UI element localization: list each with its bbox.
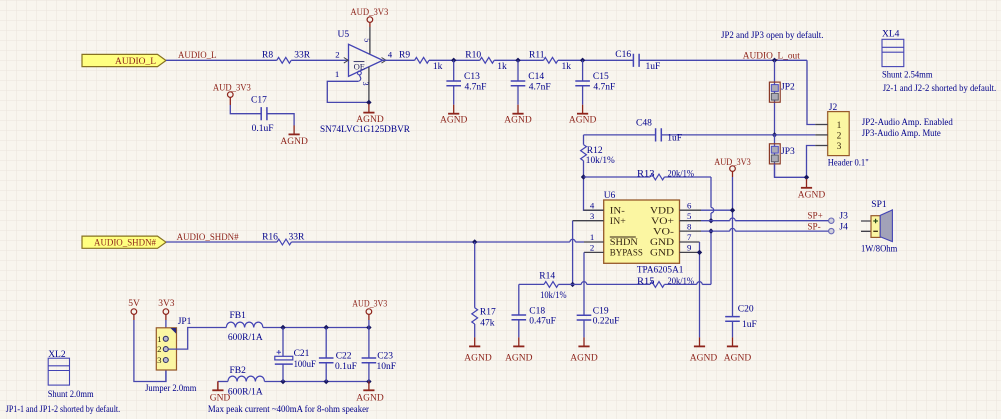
svg-text:0.47uF: 0.47uF (529, 317, 556, 327)
svg-text:AUD_3V3: AUD_3V3 (213, 84, 251, 94)
resistor R15 (650, 282, 664, 288)
connector J2 (828, 112, 850, 156)
J2 pin 2 (815, 134, 828, 136)
U6 pin 9 (680, 251, 700, 253)
connector J4 (829, 228, 834, 233)
wire IN+ vertical (572, 221, 574, 285)
svg-text:1W/8Ohm: 1W/8Ohm (861, 244, 898, 254)
wire GND pins down (699, 242, 701, 337)
svg-text:AGND: AGND (798, 191, 826, 201)
junction R17 node (472, 239, 477, 244)
wire R13 left (584, 176, 651, 178)
svg-text:FB1: FB1 (230, 311, 247, 321)
wire U5 pin4 to R9 (383, 59, 415, 61)
U5 pin 5 wire (369, 22, 371, 27)
amplifier U6 (604, 200, 680, 263)
wire C18 to AGND (518, 320, 520, 338)
wire AUDIO_L port to R8 (166, 59, 277, 61)
wire R10 to R11 (494, 59, 543, 61)
junction C22 top node (324, 325, 329, 330)
svg-text:0.22uF: 0.22uF (593, 317, 620, 327)
junction C23 bottom node (366, 379, 371, 384)
capacitor C48 (656, 128, 662, 141)
svg-text:10nF: 10nF (377, 362, 397, 372)
svg-text:AGND: AGND (570, 353, 598, 363)
svg-text:AUD_3V3: AUD_3V3 (350, 8, 388, 18)
svg-text:20k/1%: 20k/1% (668, 277, 695, 287)
wire GND to FB2 (218, 381, 228, 383)
svg-text:10k/1%: 10k/1% (540, 291, 567, 301)
svg-text:VO-: VO- (653, 226, 674, 236)
svg-text:IN-: IN- (610, 205, 625, 215)
ground AGND C20 (732, 337, 734, 346)
wire J2 pin3 down (807, 146, 816, 178)
svg-text:Shunt 2.0mm: Shunt 2.0mm (48, 390, 95, 400)
svg-text:3: 3 (837, 142, 842, 152)
svg-text:1: 1 (157, 334, 161, 344)
svg-text:C21: C21 (294, 349, 310, 359)
junction JP2 top node (772, 58, 777, 63)
svg-text:R13: R13 (637, 169, 655, 179)
svg-text:3: 3 (157, 355, 162, 365)
svg-text:5: 5 (687, 211, 692, 221)
junction C48-JP2-J2 node (772, 132, 777, 137)
svg-text:SP-: SP- (807, 221, 820, 231)
svg-text:GND: GND (210, 393, 231, 403)
svg-text:600R/1A: 600R/1A (228, 333, 263, 343)
wire R16 to U6 pin1 (291, 241, 570, 243)
U6 pin 5 (680, 220, 702, 222)
junction IN+ node (570, 282, 575, 287)
capacitor C22 (319, 358, 334, 363)
svg-text:C17: C17 (251, 96, 267, 106)
svg-text:AUD_3V3: AUD_3V3 (714, 158, 751, 168)
wire C22 stems (325, 328, 327, 359)
svg-text:JP2 and JP3 open by default.: JP2 and JP3 open by default. (721, 30, 824, 41)
svg-text:AGND: AGND (440, 116, 468, 126)
U5 OE bubble (358, 71, 362, 75)
svg-text:C16: C16 (615, 50, 631, 60)
power AUD_3V3 above U5 (367, 17, 373, 23)
wire R9 to R10 (429, 59, 480, 61)
svg-text:C23: C23 (377, 351, 393, 361)
svg-text:9: 9 (687, 243, 692, 253)
ferrite bead FB1 (226, 322, 263, 327)
wire port to R16 (166, 241, 277, 243)
U6 pin 4 (584, 209, 604, 211)
svg-text:2: 2 (837, 132, 842, 142)
wire BYPASS to C19 (583, 252, 585, 315)
svg-text:4.7nF: 4.7nF (465, 83, 487, 93)
svg-text:R15: R15 (637, 277, 655, 287)
svg-text:AUDIO_L_out: AUDIO_L_out (743, 52, 800, 62)
ground AGND C19 (583, 337, 585, 346)
ground AGND U6 (699, 337, 701, 346)
wire R13 to VO+ (664, 176, 711, 178)
wire JP1 pin2 to FB1 (168, 328, 226, 350)
junction R15-VO- node (708, 228, 713, 233)
resistor R9 (415, 57, 429, 63)
svg-text:XL4: XL4 (882, 29, 900, 39)
junction R13-VO+ node (708, 218, 713, 223)
svg-text:1: 1 (837, 121, 842, 131)
svg-text:JP3: JP3 (781, 147, 795, 157)
wire VO+ to J3 (701, 220, 730, 222)
wire FB1 to AUD_3V3 (263, 327, 369, 329)
port AUDIO_SHDN# (82, 236, 166, 248)
svg-text:U6: U6 (604, 191, 616, 201)
svg-text:C14: C14 (528, 72, 544, 82)
jumper JP2 (769, 82, 780, 102)
resistor R16 (277, 239, 291, 245)
U6 pin 3 (573, 220, 604, 222)
svg-text:C15: C15 (593, 72, 609, 82)
J2 pin 3 (815, 145, 828, 147)
svg-text:AGND: AGND (569, 116, 597, 126)
svg-text:0.1uF: 0.1uF (335, 362, 357, 372)
wire C48 to J2 pin2 (661, 134, 815, 136)
resistor R11 (544, 57, 558, 63)
svg-text:AGND: AGND (505, 353, 533, 363)
svg-text:8: 8 (687, 221, 692, 231)
svg-text:SP+: SP+ (807, 211, 822, 221)
ground AGND C13 (453, 105, 455, 114)
svg-text:JP2-Audio Amp. Enabled: JP2-Audio Amp. Enabled (862, 118, 953, 128)
wire to R17 (474, 242, 476, 308)
ferrite bead FB2 (228, 376, 265, 381)
jumper JP1 (156, 328, 176, 370)
svg-text:4: 4 (388, 50, 393, 60)
ground GND FB2 (217, 382, 219, 391)
wire JP2 vertical (774, 60, 776, 135)
svg-text:R14: R14 (539, 272, 555, 282)
U5 input edge marker (344, 58, 349, 64)
svg-text:U5: U5 (338, 30, 350, 40)
svg-text:3V3: 3V3 (158, 299, 175, 309)
svg-text:4.7nF: 4.7nF (529, 83, 551, 93)
svg-text:IN+: IN+ (610, 216, 626, 226)
svg-text:FB2: FB2 (230, 366, 247, 376)
power 5V (131, 309, 137, 315)
resistor R13 (650, 174, 664, 180)
svg-text:JP3-Audio Amp. Mute: JP3-Audio Amp. Mute (862, 129, 941, 139)
svg-text:R12: R12 (587, 146, 603, 156)
junction C15 node (580, 58, 585, 63)
U5 pin 3 wire (368, 67, 370, 103)
svg-text:1k: 1k (433, 62, 443, 72)
svg-text:2: 2 (157, 344, 161, 354)
capacitor C14 (511, 81, 526, 86)
capacitor C16 (633, 54, 639, 67)
svg-text:AUDIO_L: AUDIO_L (115, 57, 156, 67)
wire C15node to C48 (584, 134, 656, 136)
wire C21 top (282, 328, 284, 357)
svg-text:C20: C20 (738, 304, 754, 314)
svg-text:4.7nF: 4.7nF (593, 83, 615, 93)
svg-text:J2-1 and J2-2 shorted by defau: J2-1 and J2-2 shorted by default. (883, 83, 997, 94)
junction C21 top node (280, 325, 285, 330)
capacitor C23 (362, 358, 377, 363)
svg-text:1uF: 1uF (646, 62, 661, 72)
svg-text:BYPASS: BYPASS (610, 248, 643, 258)
svg-text:AGND: AGND (280, 137, 308, 147)
ground AGND C18 (518, 337, 520, 346)
power AUD_3V3 bottom (366, 309, 372, 315)
ground AGND C14 (517, 105, 519, 114)
svg-text:C18: C18 (529, 307, 545, 317)
svg-text:TPA6205A1: TPA6205A1 (637, 265, 684, 275)
svg-text:7: 7 (687, 232, 692, 242)
svg-text:33R: 33R (289, 233, 306, 243)
op-amp U5 triangle (349, 44, 383, 76)
wire VDD pin6 to AUD_3V3 (701, 209, 733, 211)
svg-text:JP2: JP2 (781, 83, 795, 93)
svg-text:Header 0.1": Header 0.1" (828, 159, 869, 169)
wire FB2 to C23 (265, 381, 369, 383)
junction C14 node (515, 58, 520, 63)
wire C16 to AUDIO_L_out (639, 59, 807, 61)
svg-text:4: 4 (590, 200, 595, 210)
junction C23 top node (366, 325, 371, 330)
wire R17 to AGND (474, 324, 476, 337)
wire C21 bottom (282, 364, 284, 381)
junction GND pins node (697, 250, 702, 255)
capacitor C20 (725, 317, 740, 322)
svg-text:GND: GND (650, 248, 674, 258)
wire R14 to C18 (518, 284, 520, 315)
junction U5 gnd node (366, 100, 371, 105)
svg-text:AGND: AGND (464, 353, 492, 363)
connector J3 (829, 218, 834, 223)
svg-text:SP1: SP1 (871, 200, 887, 210)
svg-text:C48: C48 (636, 118, 652, 128)
svg-text:Jumper 2.0mm: Jumper 2.0mm (145, 384, 197, 394)
svg-text:2: 2 (335, 50, 339, 60)
wire C20 to AGND (732, 321, 734, 337)
U6 pin 8 (680, 230, 702, 232)
junction VDD node (730, 208, 735, 213)
svg-text:AGND: AGND (356, 393, 384, 403)
svg-text:Max peak current ~400mA for 8-: Max peak current ~400mA for 8-ohm speake… (208, 404, 370, 415)
resistor R10 (480, 57, 494, 63)
svg-text:1: 1 (335, 69, 339, 79)
ground AGND bottom (368, 381, 370, 390)
junction C22 bottom node (324, 379, 329, 384)
svg-text:JP1-1 and JP1-2 shorted by def: JP1-1 and JP1-2 shorted by default. (6, 404, 121, 415)
junction C13 node (451, 58, 456, 63)
svg-text:GND: GND (650, 237, 674, 247)
svg-text:J2: J2 (829, 103, 838, 113)
svg-text:1k: 1k (562, 62, 572, 72)
wire C48 to R12 (583, 135, 585, 145)
wire AUD_3V3 to VDD and C20 (732, 171, 734, 177)
resistor R14 (544, 282, 558, 288)
resistor R12 (581, 145, 587, 161)
svg-text:R11: R11 (529, 51, 545, 61)
port AUDIO_L (82, 54, 166, 66)
svg-text:C13: C13 (464, 72, 480, 82)
svg-text:47k: 47k (480, 318, 495, 328)
wire R8 to U5 pin2 (291, 59, 348, 61)
svg-text:1: 1 (590, 232, 594, 242)
svg-text:J3: J3 (839, 212, 848, 222)
capacitor C21 (275, 356, 293, 360)
wire R14 left leg (519, 283, 544, 285)
resistor R8 (277, 57, 291, 63)
power AUD_3V3 at C17 (228, 92, 234, 98)
svg-text:JP1: JP1 (178, 317, 192, 327)
ground AGND C17 (293, 125, 295, 134)
wire R11 to C16 (558, 59, 634, 61)
svg-text:C19: C19 (593, 307, 609, 317)
junction C21 bottom node (280, 379, 285, 384)
wire C17 to AGND (267, 114, 294, 126)
junction IN- node (581, 174, 586, 179)
svg-text:600R/1A: 600R/1A (228, 388, 263, 398)
U5 output edge marker (382, 58, 387, 64)
ground AGND U5 (368, 104, 370, 113)
power 3V3 (163, 309, 169, 315)
resistor R17 (472, 308, 478, 324)
wire C15 stem (582, 60, 584, 81)
U6 pin 1 (584, 241, 604, 243)
svg-text:10k/1%: 10k/1% (586, 156, 615, 166)
svg-text:AUD_3V3: AUD_3V3 (352, 300, 387, 310)
svg-text:100uF: 100uF (294, 360, 316, 370)
svg-text:20k/1%: 20k/1% (668, 169, 695, 179)
U5 pin 1 feedback wire (327, 81, 369, 102)
capacitor C13 (446, 81, 461, 86)
U6 pin 6 (680, 209, 702, 211)
svg-text:2: 2 (590, 243, 594, 253)
capacitor C18 (512, 315, 527, 320)
J2 pin 1 (815, 124, 828, 126)
svg-text:AGND: AGND (690, 353, 718, 363)
wire R12 to U6 pin4 (584, 161, 604, 210)
svg-text:R9: R9 (399, 51, 410, 61)
ground AGND R17 (474, 337, 476, 346)
ground AGND J2 (806, 179, 808, 188)
svg-text:AGND: AGND (356, 115, 384, 125)
wire C13 stem (453, 60, 455, 81)
svg-text:1uF: 1uF (667, 134, 682, 144)
jumper JP3 (769, 144, 780, 164)
wire C14 stem (517, 60, 519, 81)
svg-text:AGND: AGND (504, 116, 532, 126)
U6 pin 7 (680, 241, 700, 243)
svg-text:VO+: VO+ (651, 216, 674, 226)
capacitor C17 (261, 107, 267, 120)
svg-text:1uF: 1uF (742, 320, 757, 330)
svg-text:Shunt 2.54mm: Shunt 2.54mm (882, 71, 933, 81)
wire C19 to AGND (583, 320, 585, 337)
capacitor C19 (577, 315, 592, 320)
svg-text:OE: OE (354, 61, 365, 71)
svg-text:6: 6 (687, 200, 692, 210)
wire VO- to J4 (701, 230, 730, 232)
svg-text:R17: R17 (480, 308, 496, 318)
wire R14 to R15 (558, 283, 572, 285)
wire 3V3 to JP1 pin1 (165, 314, 167, 320)
U6 pin 2 (584, 251, 604, 253)
wire JP3 to AGND corner (775, 164, 807, 177)
wire JP3 vertical (774, 135, 776, 177)
wire R15 to VO- (664, 283, 696, 285)
junction J2 gnd node (804, 175, 809, 180)
wire 5V down (133, 314, 135, 320)
svg-text:AUDIO_SHDN#: AUDIO_SHDN# (94, 239, 156, 249)
power AUD_3V3 at U6 (730, 166, 736, 172)
svg-text:C22: C22 (336, 351, 352, 361)
svg-text:3: 3 (590, 211, 595, 221)
wire AUD_3V3 stem (368, 314, 370, 320)
svg-text:SHDN: SHDN (610, 237, 638, 247)
svg-text:R10: R10 (465, 51, 481, 61)
svg-text:VDD: VDD (650, 205, 674, 215)
wire C23 stems (368, 328, 370, 359)
wire AUD_3V3 to C17 (229, 97, 231, 105)
capacitor C15 (575, 81, 590, 86)
svg-text:R16: R16 (262, 233, 278, 243)
wire down to J2 pin1 (807, 60, 815, 124)
ground AGND C15 (582, 105, 584, 114)
svg-text:0.1uF: 0.1uF (252, 124, 274, 134)
svg-text:5V: 5V (128, 299, 140, 309)
svg-text:J4: J4 (839, 222, 848, 232)
svg-text:1k: 1k (497, 62, 507, 72)
svg-text:SN74LVC1G125DBVR: SN74LVC1G125DBVR (320, 125, 411, 135)
wire JP1 pin3 down (165, 360, 167, 382)
svg-text:R8: R8 (262, 51, 273, 61)
svg-text:33R: 33R (294, 51, 311, 61)
svg-text:AGND: AGND (724, 353, 752, 363)
